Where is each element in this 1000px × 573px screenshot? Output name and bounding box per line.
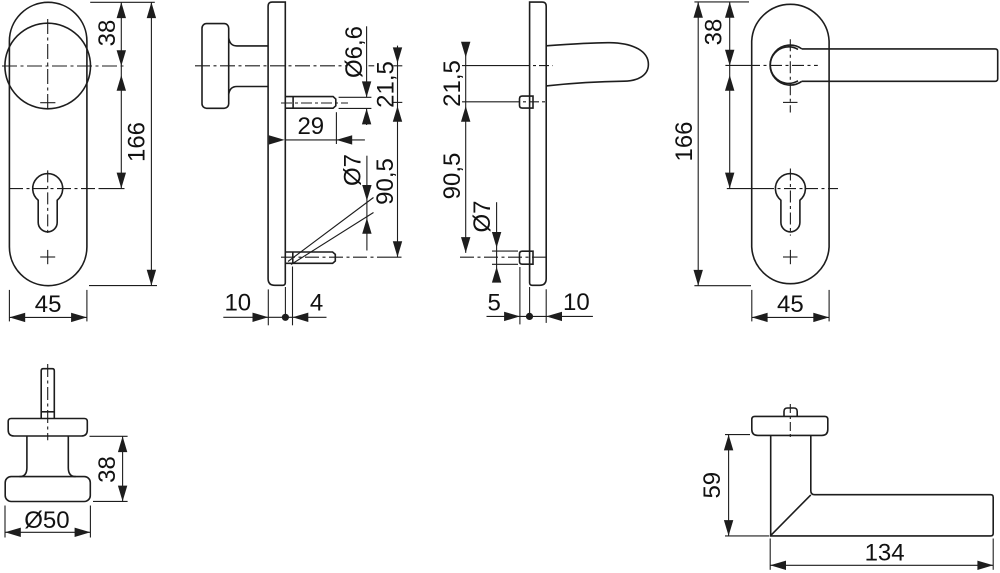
dimension line 45 [752,316,829,318]
svg-text:Ø50: Ø50 [24,507,69,534]
extension lines width 45 [751,290,753,322]
svg-text:45: 45 [35,291,62,318]
lower screw rod [285,252,335,263]
keyhole centerline horizontal [9,188,100,190]
svg-text:38: 38 [94,456,121,483]
dimension line 59 [728,435,730,536]
dimension line dia 7 [496,202,498,281]
plate (stadium outline) [9,2,87,285]
extension lines height 59 [725,434,750,436]
ticks on 21,5 dimension [393,65,402,67]
svg-text:21,5: 21,5 [373,61,400,108]
svg-text:Ø7: Ø7 [339,154,366,186]
oblique extension lines for lower screw dia [288,198,374,262]
svg-text:134: 134 [865,540,905,567]
knob centerline vertical [47,19,49,113]
extension line screw end [335,112,337,144]
lower screw sleeve [520,251,534,264]
dimension line 21,5 / 90,5 [465,42,467,253]
arrows view3 [461,42,470,58]
svg-text:Ø6,6: Ø6,6 [341,26,368,78]
svg-text:4: 4 [310,290,323,317]
extension lines dia 6,6 [339,96,372,98]
svg-text:166: 166 [124,122,151,162]
plate side [268,2,285,285]
svg-text:59: 59 [699,472,726,499]
arrows view4 [725,2,734,18]
upper screw centerline / extension [462,101,510,103]
dimension line 134 [770,564,993,566]
arrows view6 [724,435,733,451]
extension lines length 134 [769,539,771,570]
knob neck left [20,436,27,477]
lever centerline vertical [789,39,791,112]
extension line bottom [89,285,157,287]
keyhole centerline vertical [47,170,49,235]
keyhole centerline horizontal [727,188,762,190]
dimension line 10 / 4 [223,316,326,318]
dimension line dia 7 [366,156,368,251]
arrows view2 [362,81,371,97]
dimension line 45 [9,316,87,318]
euro profile cylinder keyhole [33,174,63,232]
knob neck top [229,38,269,46]
dimension line 38 [122,436,124,501]
lower screw cross [40,256,55,258]
extension lines bottom 5 and 10 [519,267,521,324]
spindle stub [784,408,797,416]
keyhole centerline vertical [789,169,791,236]
lever bullet outer arc [770,45,802,85]
dot junction 5/10 [526,313,533,320]
svg-text:90,5: 90,5 [372,158,399,205]
knob head [202,24,229,109]
svg-text:29: 29 [297,113,324,140]
svg-text:5: 5 [488,290,501,317]
lever neck inner arc [770,47,798,84]
spindle centerline [789,404,791,439]
dimension line 166 [150,2,152,285]
lever centerline horizontal [725,64,748,66]
plate side [530,2,547,285]
plate (stadium outline) [752,4,829,283]
svg-text:90,5: 90,5 [439,153,466,200]
extension lines width 45 [8,290,10,322]
upper screw rod [285,97,336,109]
dimension line 5 / 10 [487,315,593,317]
svg-text:166: 166 [671,121,698,161]
extension lines dia 7 [492,250,518,252]
lower screw centerline [460,256,549,258]
svg-text:38: 38 [701,19,728,46]
dimension line 29 [285,139,365,141]
arrows view1 [117,2,126,18]
extension line top [694,1,749,3]
knob neck right [68,436,75,477]
extension line top [90,1,155,3]
dot junction 10/4 [282,314,289,321]
lower screw cross [783,256,798,258]
lower screw sleeve line [292,252,294,263]
euro profile cylinder keyhole [775,174,805,232]
upper screw centerline [281,102,348,104]
upper screw sleeve line [292,97,294,109]
upper screw tick [783,101,798,103]
lever bar [802,49,998,81]
extension lines bottom 10 and 4 [267,289,269,325]
miter seam [771,495,811,535]
arrows view5 [118,436,127,452]
svg-text:21,5: 21,5 [439,60,466,107]
extension lines height 38 [90,435,128,437]
lever flange [752,416,828,435]
dimension line dia 50 [5,531,90,533]
svg-text:38: 38 [94,20,121,47]
extension lines dia 50 [4,506,6,538]
knob centerline [195,65,346,67]
dimension line dia 6,6 [366,26,368,97]
spindle collar line [41,411,54,413]
lever grip profile [546,43,648,86]
lever centerline / extension [462,65,520,67]
dimension line 38 + chain [729,2,731,189]
knob circle [5,23,91,109]
lower screw centerline [281,256,374,258]
svg-text:10: 10 [563,289,590,316]
knob head [5,477,90,502]
svg-text:45: 45 [777,291,804,318]
dimension line 166 [697,2,699,286]
dimension line 21,5 / 90,5 [397,46,399,258]
knob flange [8,419,87,437]
knob centerline horizontal [2,65,125,67]
upper screw sleeve [520,96,534,108]
spindle [41,369,54,419]
svg-text:10: 10 [224,290,251,317]
upper screw tick [40,102,55,104]
dimension line 38 + chain [120,2,122,188]
svg-text:Ø7: Ø7 [469,200,496,232]
knob neck bottom [229,87,269,95]
lever neck and grip outline [771,435,994,536]
spindle centerline [47,364,49,440]
extension line bottom [694,285,751,287]
